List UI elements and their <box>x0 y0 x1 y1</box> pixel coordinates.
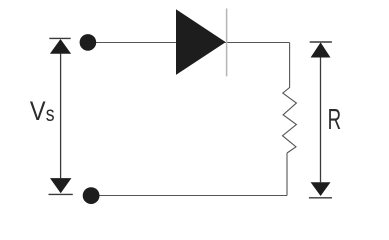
R measure bottom bar <box>309 197 332 199</box>
svg-text:R: R <box>328 104 342 136</box>
Vs measure bottom arrowhead <box>50 178 71 193</box>
diode D1 cathode bar <box>226 9 228 77</box>
node top terminal dot <box>80 34 97 51</box>
Vs measure top arrowhead <box>50 39 71 54</box>
node bottom terminal dot <box>83 187 100 204</box>
wire right vertical (corner to resistor) <box>289 43 291 89</box>
wire bottom (corner to node) <box>91 195 287 197</box>
diode D1 anode triangle <box>176 9 226 75</box>
resistor R zigzag <box>283 88 297 154</box>
Vs measure top bar <box>49 37 70 39</box>
R measure top bar <box>310 41 332 43</box>
svg-text:s: s <box>46 103 55 126</box>
R measure vertical line <box>320 58 322 183</box>
R measure top arrowhead <box>311 42 331 57</box>
wire top (node to diode to corner) <box>88 42 290 44</box>
svg-text:V: V <box>30 96 46 126</box>
R measure bottom arrowhead <box>311 182 331 196</box>
Vs measure bottom bar <box>49 193 73 195</box>
wire resistor bottom lead <box>286 153 288 196</box>
Vs measure vertical line <box>60 54 62 179</box>
